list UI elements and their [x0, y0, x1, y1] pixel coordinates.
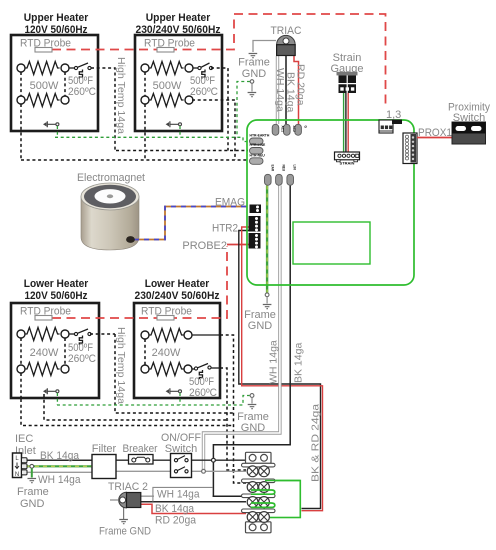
svg-text:260ºC: 260ºC	[68, 353, 96, 365]
svg-text:260ºC: 260ºC	[189, 387, 217, 399]
svg-text:BK 14ga: BK 14ga	[155, 503, 195, 515]
svg-text:WH 14ga: WH 14ga	[157, 489, 200, 501]
svg-text:Filter: Filter	[92, 443, 117, 455]
svg-text:RD 20ga: RD 20ga	[295, 64, 307, 106]
svg-text:WH 14ga: WH 14ga	[274, 68, 286, 112]
svg-text:500W: 500W	[30, 80, 59, 92]
svg-text:1,3: 1,3	[386, 109, 401, 121]
svg-text:Frame GND: Frame GND	[99, 526, 151, 538]
svg-text:Lower Heater: Lower Heater	[145, 278, 210, 290]
svg-text:HTR-LINE: HTR-LINE	[250, 143, 267, 147]
svg-text:GND: GND	[241, 422, 266, 434]
svg-text:500W: 500W	[153, 80, 182, 92]
svg-text:AC2: AC2	[292, 126, 296, 133]
svg-text:NEU: NEU	[281, 165, 285, 172]
svg-text:TRIAC 2: TRIAC 2	[108, 481, 148, 493]
svg-text:Breaker: Breaker	[123, 443, 158, 455]
svg-text:260ºC: 260ºC	[190, 86, 218, 98]
svg-text:BK & RD 24ga: BK & RD 24ga	[310, 404, 322, 482]
svg-text:PROBE2: PROBE2	[182, 240, 227, 252]
svg-text:Lower Heater: Lower Heater	[24, 278, 89, 290]
svg-text:230/240V 50/60Hz: 230/240V 50/60Hz	[135, 290, 220, 302]
svg-text:Upper Heater: Upper Heater	[24, 12, 89, 24]
svg-text:GND: GND	[248, 320, 273, 332]
svg-text:EAR: EAR	[270, 165, 274, 172]
svg-text:High Temp 14ga: High Temp 14ga	[115, 327, 127, 404]
svg-text:Frame: Frame	[17, 486, 49, 498]
svg-text:GND: GND	[20, 498, 45, 510]
svg-text:High Temp 14ga: High Temp 14ga	[115, 57, 127, 134]
svg-text:240W: 240W	[152, 347, 181, 359]
svg-text:RD 20ga: RD 20ga	[155, 515, 197, 527]
svg-text:PROX1: PROX1	[418, 127, 452, 139]
svg-text:Upper Heater: Upper Heater	[146, 12, 211, 24]
svg-text:WH 14ga: WH 14ga	[38, 474, 81, 486]
svg-text:260ºC: 260ºC	[68, 86, 96, 98]
svg-text:HTR2: HTR2	[212, 223, 238, 235]
svg-text:AC1: AC1	[281, 126, 285, 133]
svg-text:GND: GND	[242, 68, 267, 80]
svg-text:WH 14ga: WH 14ga	[268, 340, 280, 384]
svg-text:HTR-NEU: HTR-NEU	[250, 153, 266, 157]
svg-text:EMAG: EMAG	[215, 197, 245, 209]
svg-text:LIN: LIN	[293, 165, 297, 171]
svg-text:HTR-EARTH: HTR-EARTH	[250, 133, 270, 137]
svg-text:240W: 240W	[30, 347, 59, 359]
svg-text:IEC: IEC	[15, 433, 33, 445]
svg-text:STRAIN: STRAIN	[340, 161, 355, 166]
svg-text:BK 14ga: BK 14ga	[293, 343, 305, 383]
svg-text:BK 14ga: BK 14ga	[40, 450, 80, 462]
svg-text:120V 50/60Hz: 120V 50/60Hz	[25, 290, 88, 302]
svg-text:Frame: Frame	[238, 57, 270, 69]
svg-text:Electromagnet: Electromagnet	[77, 172, 145, 184]
svg-text:N: N	[15, 472, 19, 478]
